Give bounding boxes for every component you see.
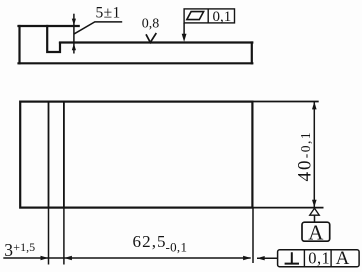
svg-text:62,5: 62,5 bbox=[133, 232, 167, 251]
svg-text:A: A bbox=[308, 220, 324, 244]
svg-text:0,1: 0,1 bbox=[308, 248, 330, 267]
svg-text:40: 40 bbox=[295, 159, 316, 182]
svg-text:+1,5: +1,5 bbox=[13, 240, 35, 254]
svg-text:0,1: 0,1 bbox=[213, 9, 232, 25]
svg-text:-0,1: -0,1 bbox=[166, 240, 188, 255]
svg-text:A: A bbox=[336, 248, 350, 269]
svg-text:3: 3 bbox=[4, 240, 13, 260]
svg-text:0,8: 0,8 bbox=[142, 16, 160, 31]
svg-text:-0,1: -0,1 bbox=[298, 131, 313, 158]
svg-text:5±1: 5±1 bbox=[96, 4, 121, 21]
